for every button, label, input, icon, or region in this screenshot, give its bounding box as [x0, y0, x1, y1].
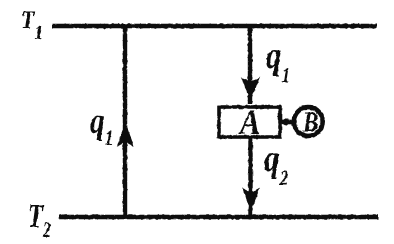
svg-text:q1: q1: [90, 102, 113, 150]
cold reservoir line T2: [59, 215, 378, 220]
wire left vertical: [123, 26, 127, 218]
svg-text:q1: q1: [266, 34, 290, 87]
hot reservoir line T1: [52, 24, 377, 29]
arrow down to T2: [242, 188, 260, 212]
wire right lower vertical: [248, 137, 252, 215]
svg-text:q2: q2: [264, 137, 289, 190]
svg-text:T2: T2: [28, 198, 51, 242]
arrow up on left wire: [117, 122, 134, 147]
wire right upper vertical: [248, 26, 252, 104]
junction blob: [283, 119, 290, 126]
connector wire box to circle: [280, 120, 293, 125]
circle B: [294, 107, 323, 136]
svg-text:T1: T1: [21, 7, 43, 45]
svg-text:B: B: [302, 106, 318, 138]
box A: [219, 107, 280, 137]
arrow down into box A: [241, 77, 260, 102]
svg-text:A: A: [238, 103, 260, 143]
